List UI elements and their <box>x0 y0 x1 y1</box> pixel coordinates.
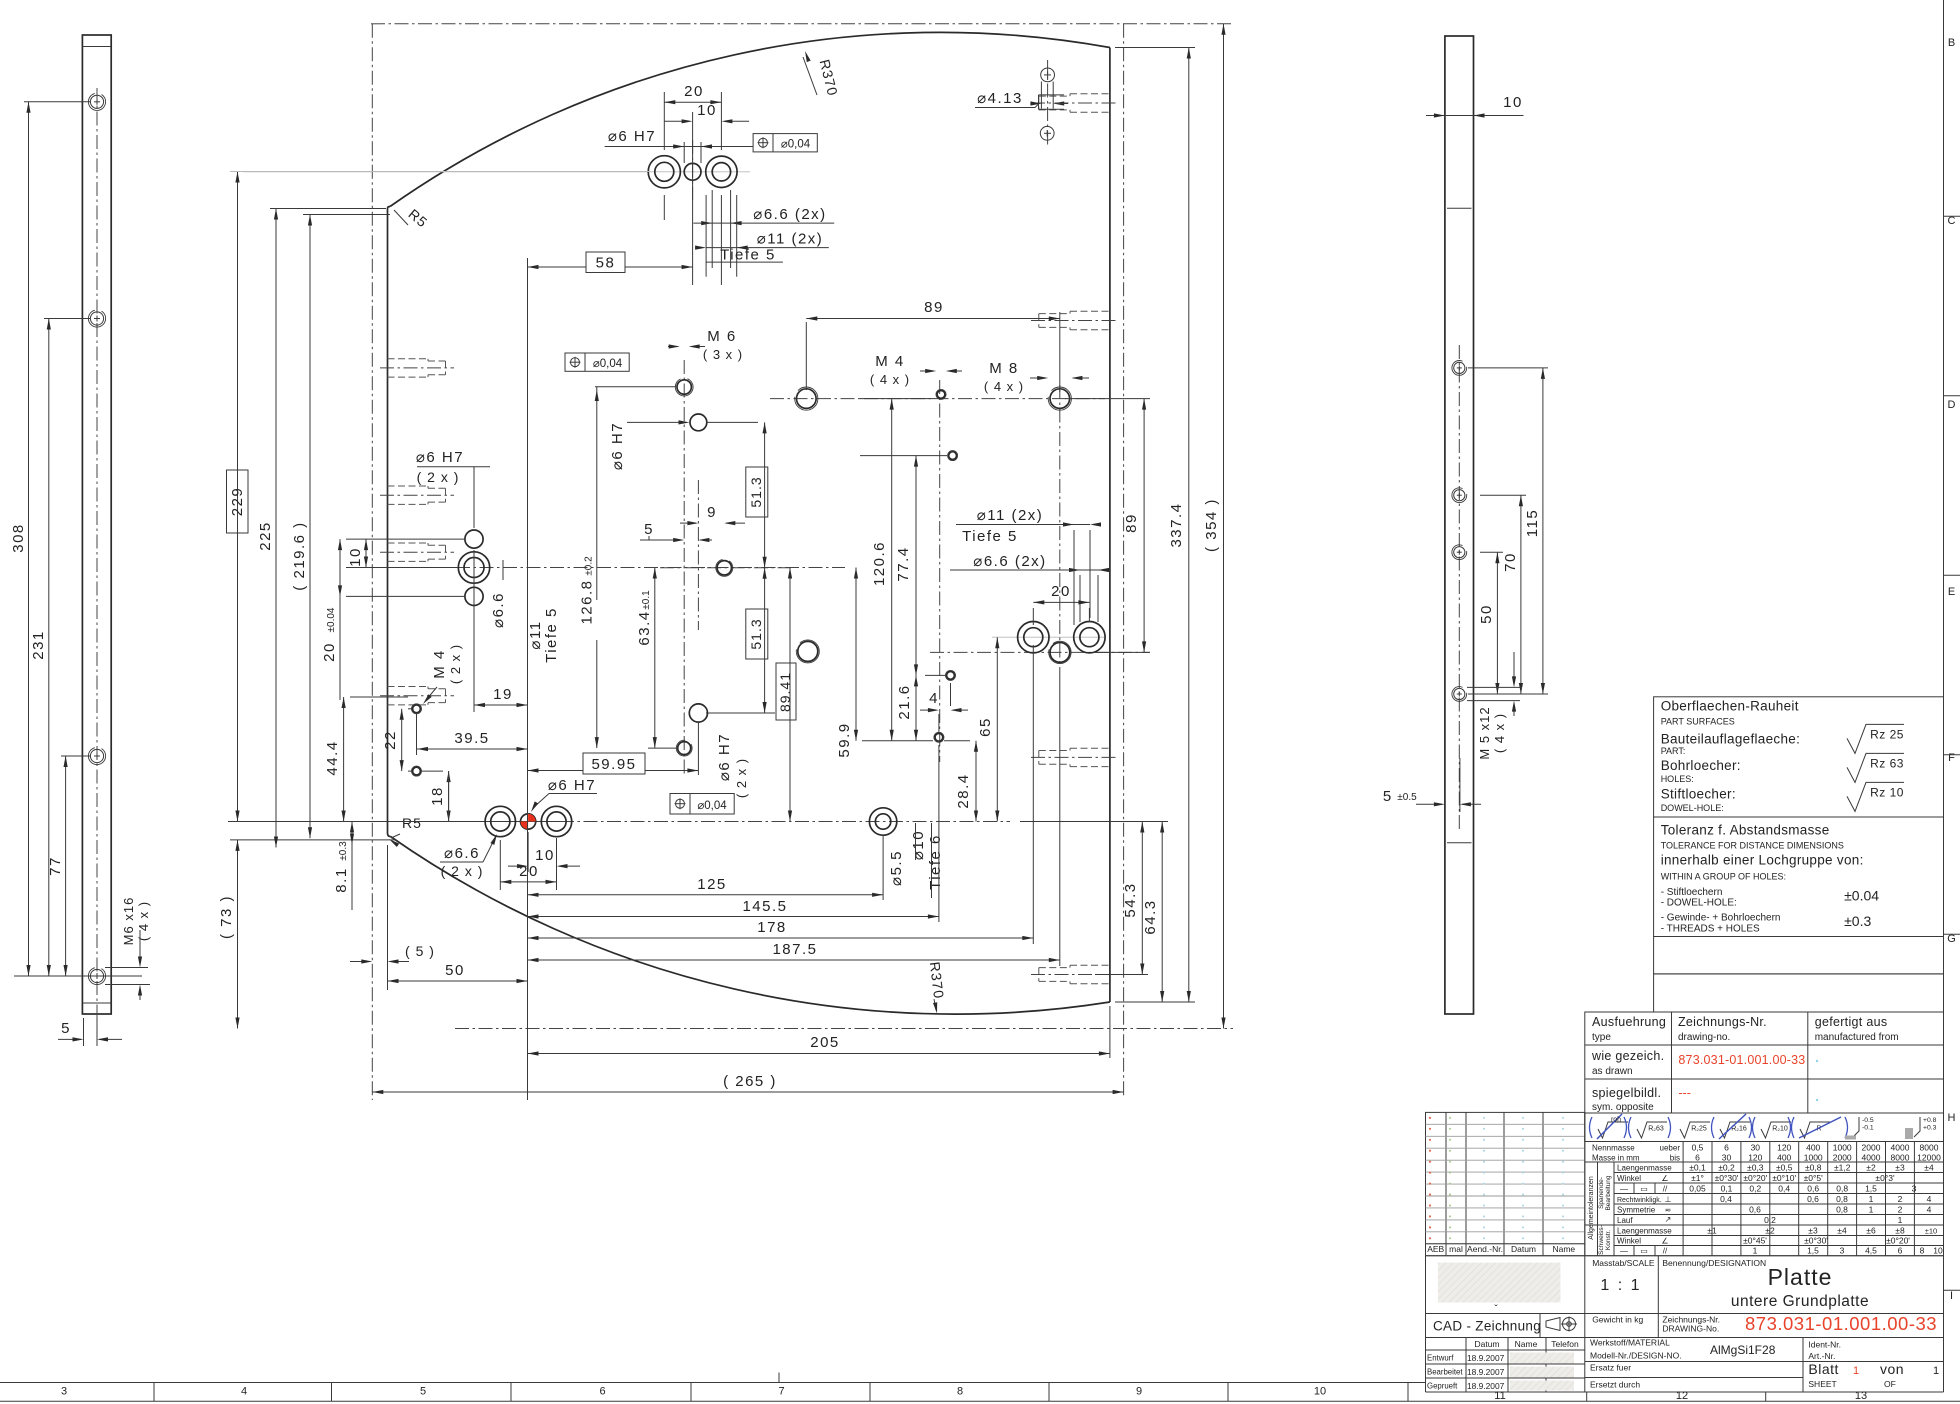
svg-text:0,05: 0,05 <box>1689 1184 1706 1194</box>
svg-text:51.3: 51.3 <box>748 476 764 507</box>
svg-text:SHEET: SHEET <box>1808 1379 1836 1389</box>
svg-text:10: 10 <box>1503 94 1523 111</box>
svg-text:PART SURFACES: PART SURFACES <box>1661 717 1735 727</box>
position frame top <box>753 134 817 152</box>
svg-text:11: 11 <box>1494 1390 1505 1402</box>
svg-text:±10: ±10 <box>1925 1227 1937 1236</box>
svg-text:innerhalb einer Lochgruppe von: innerhalb einer Lochgruppe von: <box>1661 853 1864 868</box>
svg-text:Name: Name <box>1515 1339 1538 1349</box>
svg-text:9: 9 <box>707 504 717 521</box>
svg-text:0,8: 0,8 <box>1836 1205 1848 1215</box>
centerline top horizontal <box>371 23 1233 25</box>
svg-text:( 2 x ): ( 2 x ) <box>448 644 463 684</box>
dimension 39.5 <box>417 748 528 750</box>
dimension 205 <box>528 1053 1110 1055</box>
svg-text:9: 9 <box>1136 1386 1142 1398</box>
svg-text:Oberflaechen-Rauheit: Oberflaechen-Rauheit <box>1661 699 1799 714</box>
svg-text:untere Grundplatte: untere Grundplatte <box>1731 1293 1869 1310</box>
sheet bottom zone strip <box>0 1382 1426 1384</box>
svg-text:M 5 x12: M 5 x12 <box>1477 706 1492 759</box>
left view hole M6 #2 <box>90 312 103 325</box>
svg-text:CAD - Zeichnung: CAD - Zeichnung <box>1433 1319 1541 1334</box>
svg-text:0,8: 0,8 <box>1836 1194 1848 1204</box>
svg-text:64.3: 64.3 <box>1142 899 1159 934</box>
dimension 58 <box>528 266 587 268</box>
svg-text:30: 30 <box>1722 1153 1732 1163</box>
hidden thread M6x16 left edge #3 <box>388 542 429 544</box>
projection symbol <box>1546 1318 1560 1331</box>
svg-text:Ident-Nr.: Ident-Nr. <box>1808 1340 1841 1350</box>
svg-text:Konstr.: Konstr. <box>1605 1230 1612 1250</box>
svg-text:2: 2 <box>1898 1194 1903 1204</box>
svg-text:R₂10: R₂10 <box>1772 1126 1788 1133</box>
dimension 51.3 lower <box>764 568 766 713</box>
svg-text:1: 1 <box>1933 1365 1939 1377</box>
dimension 20 top <box>664 101 721 103</box>
hidden thread right edge #3 <box>1070 747 1110 749</box>
svg-text:Winkel: Winkel <box>1617 1174 1641 1183</box>
svg-text:400: 400 <box>1806 1143 1820 1153</box>
svg-text:1000: 1000 <box>1833 1143 1852 1153</box>
revision table <box>1426 1112 1585 1255</box>
fold mark bottom <box>778 1373 780 1383</box>
svg-text:145.5: 145.5 <box>742 898 787 915</box>
svg-text:6: 6 <box>599 1386 605 1398</box>
dimension 4 <box>920 709 936 711</box>
right view hole M5 #3 <box>1454 547 1465 558</box>
svg-text:( 4 x ): ( 4 x ) <box>984 379 1024 394</box>
svg-text:±0.1: ±0.1 <box>641 590 652 610</box>
svg-text:8: 8 <box>957 1386 963 1398</box>
svg-text:gefertigt aus: gefertigt aus <box>1815 1015 1888 1029</box>
svg-text:126.8: 126.8 <box>579 579 596 624</box>
svg-text:PART:: PART: <box>1661 746 1686 756</box>
svg-text:5: 5 <box>61 1020 71 1037</box>
signature rows <box>1426 1337 1585 1339</box>
dimension 63.4 <box>654 568 656 749</box>
svg-text:( 2 x ): ( 2 x ) <box>417 469 460 485</box>
svg-text:0,8: 0,8 <box>1836 1184 1848 1194</box>
svg-text:89.41: 89.41 <box>777 672 793 712</box>
svg-text:6: 6 <box>1724 1143 1729 1153</box>
svg-text:1: 1 <box>1869 1205 1874 1215</box>
thread hole M6 mid <box>717 561 731 575</box>
ext line hole3 <box>61 755 90 757</box>
svg-text:G: G <box>1947 933 1956 945</box>
svg-text:⌀11 (2x): ⌀11 (2x) <box>757 231 824 248</box>
svg-text:1: 1 <box>1853 1365 1859 1377</box>
svg-text:6: 6 <box>1898 1246 1903 1256</box>
svg-text:0,4: 0,4 <box>1720 1194 1732 1204</box>
dimension (265) <box>372 1091 1123 1093</box>
hidden thread right edge #2 <box>1070 310 1110 312</box>
svg-text:Bearbeitet: Bearbeitet <box>1427 1368 1463 1377</box>
svg-text:±0°20': ±0°20' <box>1743 1173 1767 1183</box>
roughness symbols row blue <box>1585 1113 1944 1142</box>
svg-text:±6: ±6 <box>1866 1226 1876 1236</box>
dimension 187.5 <box>528 959 1060 961</box>
svg-text:1: 1 <box>1898 1215 1903 1225</box>
right border line <box>1943 0 1945 1012</box>
svg-text:873.031-01.001.00-33: 873.031-01.001.00-33 <box>1678 1053 1805 1067</box>
svg-text:⌀6.6 (2x): ⌀6.6 (2x) <box>753 206 826 223</box>
svg-text:28.4: 28.4 <box>955 773 972 808</box>
svg-text:( 4 x ): ( 4 x ) <box>870 372 910 387</box>
revision dots <box>1429 1117 1431 1119</box>
svg-text:F: F <box>1948 752 1955 764</box>
svg-text:2: 2 <box>1898 1205 1903 1215</box>
svg-text:( 4 x ): ( 4 x ) <box>1492 713 1507 753</box>
svg-text:59.95: 59.95 <box>591 756 636 773</box>
svg-text:—: — <box>1620 1185 1628 1194</box>
svg-text:( 4 x ): ( 4 x ) <box>136 901 151 941</box>
svg-text:±0°30': ±0°30' <box>1715 1173 1739 1183</box>
svg-text:↗: ↗ <box>1665 1215 1672 1224</box>
row centerline mid <box>362 567 845 569</box>
svg-text:Datum: Datum <box>1474 1339 1499 1349</box>
svg-text:∠: ∠ <box>1661 1174 1668 1183</box>
row centerline bottom right group <box>930 651 1150 653</box>
svg-text:Tiefe 5: Tiefe 5 <box>543 607 560 663</box>
svg-text:Aend.-Nr.: Aend.-Nr. <box>1467 1244 1503 1254</box>
left side view outline <box>82 35 111 1014</box>
centerline left vertical <box>371 24 373 1100</box>
svg-text:±0,1: ±0,1 <box>1689 1163 1706 1173</box>
dimension 64.3 <box>1161 822 1163 1003</box>
svg-text:wie gezeich.: wie gezeich. <box>1591 1049 1664 1063</box>
svg-text:±1,2: ±1,2 <box>1834 1163 1851 1173</box>
svg-text:DOWEL-HOLE:: DOWEL-HOLE: <box>1661 803 1724 813</box>
Rz 63 symbol <box>1847 753 1904 782</box>
svg-text:19: 19 <box>493 686 513 703</box>
svg-text:⌀0,04: ⌀0,04 <box>697 800 727 812</box>
svg-text:63.4: 63.4 <box>636 610 653 645</box>
dowel hole D6H7 left upper <box>465 530 483 548</box>
thread hole M6 bottom <box>678 742 691 755</box>
counterbore hole D11/D6.6 top right <box>706 156 737 187</box>
dimension 65 <box>996 637 998 821</box>
svg-text:±1°: ±1° <box>1691 1173 1704 1183</box>
svg-text:⌀0,04: ⌀0,04 <box>593 358 623 370</box>
svg-text:Entwurf: Entwurf <box>1427 1354 1454 1363</box>
thread hole M8 top left <box>797 389 817 409</box>
left view hole M6 #1 <box>90 95 103 108</box>
svg-text:Schweiss-: Schweiss- <box>1598 1225 1605 1255</box>
row centerline bottom holes dashdot <box>560 821 1010 823</box>
dimension (354) <box>1223 24 1225 1029</box>
position frame mid <box>565 353 629 371</box>
svg-text:Bohrloecher:: Bohrloecher: <box>1661 758 1741 773</box>
svg-text:- Gewinde- + Bohrloechern: - Gewinde- + Bohrloechern <box>1661 913 1781 924</box>
svg-text:( 3 x ): ( 3 x ) <box>703 347 743 362</box>
svg-text:±2: ±2 <box>1866 1163 1876 1173</box>
svg-text:⌀6 H7: ⌀6 H7 <box>548 777 596 794</box>
hole D5.5/D10 bottom <box>869 808 896 835</box>
svg-text:Symmetrie: Symmetrie <box>1617 1206 1656 1215</box>
svg-text:drawing-no.: drawing-no. <box>1678 1032 1730 1043</box>
svg-text:Art.-Nr.: Art.-Nr. <box>1808 1351 1835 1361</box>
surface roughness table box <box>1654 697 1944 817</box>
svg-text:±0°30': ±0°30' <box>1804 1236 1828 1246</box>
svg-text:125: 125 <box>697 876 727 893</box>
svg-text:( 2 x ): ( 2 x ) <box>441 863 484 879</box>
cross hole D4.13 lower <box>1040 126 1054 140</box>
svg-text:18.9.2007: 18.9.2007 <box>1467 1353 1505 1363</box>
counterbore hole D11/D6.6 right mid b <box>1074 622 1105 653</box>
svg-text:M6 x16: M6 x16 <box>121 897 136 946</box>
svg-text:1,5: 1,5 <box>1807 1246 1819 1256</box>
svg-text:Ausfuehrung: Ausfuehrung <box>1592 1015 1666 1029</box>
svg-text:Tiefe 6: Tiefe 6 <box>927 834 944 890</box>
svg-text:Ersatz fuer: Ersatz fuer <box>1590 1363 1631 1373</box>
svg-text:±0,8: ±0,8 <box>1805 1163 1822 1173</box>
ext lines right view dims <box>1468 367 1548 369</box>
dimension 5 +-0.5 <box>1459 758 1461 812</box>
svg-text:4000: 4000 <box>1862 1153 1881 1163</box>
svg-text:HOLES:: HOLES: <box>1661 774 1694 784</box>
svg-text:Laengenmasse: Laengenmasse <box>1617 1227 1672 1236</box>
svg-text:R₂63: R₂63 <box>1648 1126 1664 1133</box>
svg-text:4,5: 4,5 <box>1865 1246 1877 1256</box>
svg-text://: // <box>1663 1185 1668 1194</box>
svg-text:R5: R5 <box>402 815 422 831</box>
datum hole D6H7 red <box>521 814 536 829</box>
svg-text:Bauteilauflageflaeche:: Bauteilauflageflaeche: <box>1661 732 1800 747</box>
right view hole M5 #4 <box>1454 688 1465 699</box>
thread hole M4 a <box>937 391 945 399</box>
svg-text:OF: OF <box>1884 1379 1896 1389</box>
svg-text:337.4: 337.4 <box>1168 502 1185 547</box>
ext line hole1 <box>24 101 90 103</box>
svg-text:( 219.6 ): ( 219.6 ) <box>291 521 308 590</box>
ext line hole4 <box>14 975 142 977</box>
svg-text:( 354 ): ( 354 ) <box>1203 498 1220 552</box>
ext line M6 bottom row <box>648 747 678 749</box>
dimension 50 bottom <box>388 980 528 982</box>
svg-text:±0°3': ±0°3' <box>1875 1173 1895 1183</box>
svg-text:2000: 2000 <box>1862 1143 1881 1153</box>
svg-text:20: 20 <box>1051 583 1071 600</box>
svg-text:Tiefe 5: Tiefe 5 <box>720 247 776 264</box>
counterbore hole D11/D6.6 right mid a <box>1018 622 1049 653</box>
dimension (219.6) <box>309 215 311 839</box>
svg-text:12000: 12000 <box>1917 1153 1941 1163</box>
main view plate left edge <box>387 209 389 834</box>
svg-text:1: 1 <box>1753 1246 1758 1256</box>
svg-text:120.6: 120.6 <box>871 541 888 586</box>
dimension 5 mid <box>640 539 682 541</box>
dowel hole D6H7 top <box>684 163 701 180</box>
dimension 20 +-0.04 <box>339 539 341 596</box>
dimension 225 <box>275 209 277 848</box>
dimension 337.4 <box>1188 48 1190 1003</box>
CAD - Zeichnung cell <box>1426 1313 1585 1315</box>
svg-text:400: 400 <box>1777 1153 1791 1163</box>
svg-text:4: 4 <box>1927 1194 1932 1204</box>
counterbore hole D11/D6.6 left mid <box>458 552 489 583</box>
svg-text:+0.8: +0.8 <box>1923 1117 1937 1124</box>
dimension 9 <box>680 522 696 524</box>
svg-text:4: 4 <box>1927 1205 1932 1215</box>
title block outer <box>1426 1255 1944 1257</box>
left view centerline <box>96 88 98 1038</box>
thread hole M4 b <box>949 452 957 460</box>
svg-text:7: 7 <box>778 1386 784 1398</box>
svg-text:Masse in mm: Masse in mm <box>1592 1154 1640 1163</box>
Rz 25 symbol <box>1847 724 1904 753</box>
svg-text:2000: 2000 <box>1833 1153 1852 1163</box>
svg-text:51.3: 51.3 <box>748 618 764 649</box>
svg-text:4000: 4000 <box>1891 1143 1910 1153</box>
svg-text:⌀6 H7: ⌀6 H7 <box>416 449 464 466</box>
dimension 10 right view <box>1426 115 1524 117</box>
column centerline D6H7 mid <box>697 480 699 630</box>
svg-text:( 2 x ): ( 2 x ) <box>734 758 749 798</box>
svg-text:39.5: 39.5 <box>454 730 489 747</box>
svg-text:spiegelbildl.: spiegelbildl. <box>1592 1086 1661 1100</box>
svg-text:---: --- <box>1678 1086 1691 1100</box>
svg-text:120: 120 <box>1777 1143 1791 1153</box>
svg-text:( 5 ): ( 5 ) <box>405 943 435 959</box>
dimension 120.6 <box>891 399 893 741</box>
svg-text:DRAWING-No.: DRAWING-No. <box>1662 1324 1719 1334</box>
svg-text:⌀5.5: ⌀5.5 <box>888 850 905 886</box>
svg-text:R₂25: R₂25 <box>1691 1126 1707 1133</box>
svg-text:⌀4.13: ⌀4.13 <box>977 90 1023 107</box>
main view right edge <box>1109 48 1111 1003</box>
svg-text:I: I <box>1950 1290 1953 1302</box>
cross hole D4.13 upper <box>1041 68 1055 82</box>
svg-text:10: 10 <box>347 547 364 567</box>
dimension 10 left mid <box>365 539 367 567</box>
svg-text:Telefon: Telefon <box>1551 1339 1579 1349</box>
svg-text:5: 5 <box>644 521 654 538</box>
R5 fillet top corner <box>388 207 391 209</box>
svg-text:4: 4 <box>929 690 939 707</box>
dimension 8.1 +-0.3 <box>351 822 353 845</box>
svg-text:1000: 1000 <box>1804 1153 1823 1163</box>
svg-text:von: von <box>1880 1361 1904 1377</box>
thread hole M4 e <box>413 705 421 713</box>
ext column D6H7 top <box>692 112 694 285</box>
svg-text:±0.04: ±0.04 <box>326 607 337 632</box>
svg-text:Rz 10: Rz 10 <box>1870 785 1904 799</box>
svg-text:187.5: 187.5 <box>772 941 817 958</box>
dimension 59.95 <box>528 770 584 772</box>
svg-text:±8: ±8 <box>1895 1226 1905 1236</box>
dimension 10 top <box>664 120 683 122</box>
Ausfuehrung table <box>1585 1012 1944 1113</box>
row centerline counterbores right <box>992 636 1105 638</box>
dimension 21.6 <box>915 675 917 740</box>
svg-text:1 : 1: 1 : 1 <box>1600 1277 1641 1294</box>
dimension 231 <box>48 319 50 977</box>
svg-text:±0.2: ±0.2 <box>584 556 595 576</box>
svg-text:229: 229 <box>229 487 246 517</box>
svg-text:as drawn: as drawn <box>1592 1066 1633 1077</box>
svg-text:manufactured from: manufactured from <box>1815 1032 1899 1043</box>
svg-text:sym. opposite: sym. opposite <box>1592 1102 1654 1113</box>
svg-text:Toleranz f. Abstandsmasse: Toleranz f. Abstandsmasse <box>1661 822 1830 837</box>
svg-text:13: 13 <box>1855 1390 1867 1402</box>
svg-text:- THREADS + HOLES: - THREADS + HOLES <box>1661 923 1760 934</box>
empty note rows <box>1654 937 1944 974</box>
svg-text:0,6: 0,6 <box>1807 1194 1819 1204</box>
svg-text:59.9: 59.9 <box>836 722 853 757</box>
dimension 77 <box>65 756 67 976</box>
dimension 50 right <box>1496 552 1498 694</box>
svg-text:44.4: 44.4 <box>324 740 341 775</box>
svg-text:R₂16: R₂16 <box>1731 1126 1747 1133</box>
svg-text:bis: bis <box>1670 1154 1680 1163</box>
svg-text:20: 20 <box>321 642 338 662</box>
svg-text:6: 6 <box>1695 1153 1700 1163</box>
svg-text:18.9.2007: 18.9.2007 <box>1467 1367 1505 1377</box>
svg-text:Nennmasse: Nennmasse <box>1592 1144 1635 1153</box>
svg-text:mal: mal <box>1449 1244 1463 1254</box>
svg-text:50: 50 <box>1478 604 1495 624</box>
row centerline bottom holes solid <box>228 821 560 823</box>
svg-text:Zeichnungs-Nr.: Zeichnungs-Nr. <box>1678 1015 1767 1029</box>
svg-text:±0°45': ±0°45' <box>1743 1236 1767 1246</box>
svg-text:M 6: M 6 <box>707 328 737 345</box>
svg-text:Lauf: Lauf <box>1617 1216 1633 1225</box>
dimension 178 <box>528 937 1034 939</box>
right view hole M5 #2 <box>1454 490 1465 501</box>
svg-text:0,5: 0,5 <box>1692 1143 1704 1153</box>
dimension 19 <box>474 704 528 706</box>
svg-text:⌀6 H7: ⌀6 H7 <box>609 422 626 470</box>
dimension 54.3 <box>1141 822 1143 975</box>
R5 fillet bottom corner <box>388 833 391 837</box>
svg-text:( 265 ): ( 265 ) <box>723 1073 777 1090</box>
svg-text:⌀6.6: ⌀6.6 <box>444 845 480 862</box>
svg-text:5: 5 <box>420 1386 426 1398</box>
svg-text:Allgemeintoleranzen: Allgemeintoleranzen <box>1588 1176 1595 1240</box>
ext line M6 top row <box>595 386 676 388</box>
dimension 115 <box>1542 368 1544 694</box>
svg-text:≂: ≂ <box>1665 1206 1672 1215</box>
svg-text:10: 10 <box>1314 1386 1326 1398</box>
svg-text:-0.1: -0.1 <box>1862 1125 1874 1132</box>
left view hole M6 #4 <box>90 969 103 982</box>
svg-text:70: 70 <box>1502 552 1519 572</box>
dimension 28.4 <box>975 741 977 822</box>
svg-text:Rz 25: Rz 25 <box>1870 727 1904 741</box>
svg-text://: // <box>1663 1247 1668 1256</box>
dimension 20 right group <box>1033 601 1089 603</box>
svg-text:50: 50 <box>445 962 465 979</box>
svg-text:5: 5 <box>1383 788 1391 805</box>
dimension 89 right <box>1143 399 1145 653</box>
svg-text:M 4: M 4 <box>875 353 905 370</box>
svg-text:AEB: AEB <box>1427 1244 1444 1254</box>
dimension 229 / (73) line <box>237 172 239 822</box>
svg-text:205: 205 <box>810 1034 840 1051</box>
position frame bottom <box>670 794 734 815</box>
svg-text:89: 89 <box>924 299 944 316</box>
svg-text:0,6: 0,6 <box>1807 1184 1819 1194</box>
svg-text:±2: ±2 <box>1765 1226 1775 1236</box>
dowel hole D6H7 mid upper <box>690 414 707 431</box>
row centerline M8 top <box>770 398 1105 400</box>
svg-text:225: 225 <box>257 521 274 551</box>
column centerline D4.13 <box>1047 60 1049 148</box>
tolerance note box <box>1654 817 1944 937</box>
svg-text:873.031-01.001.00-33: 873.031-01.001.00-33 <box>1745 1313 1937 1334</box>
dimension 125 <box>528 894 884 896</box>
svg-text:( 73 ): ( 73 ) <box>218 895 235 939</box>
